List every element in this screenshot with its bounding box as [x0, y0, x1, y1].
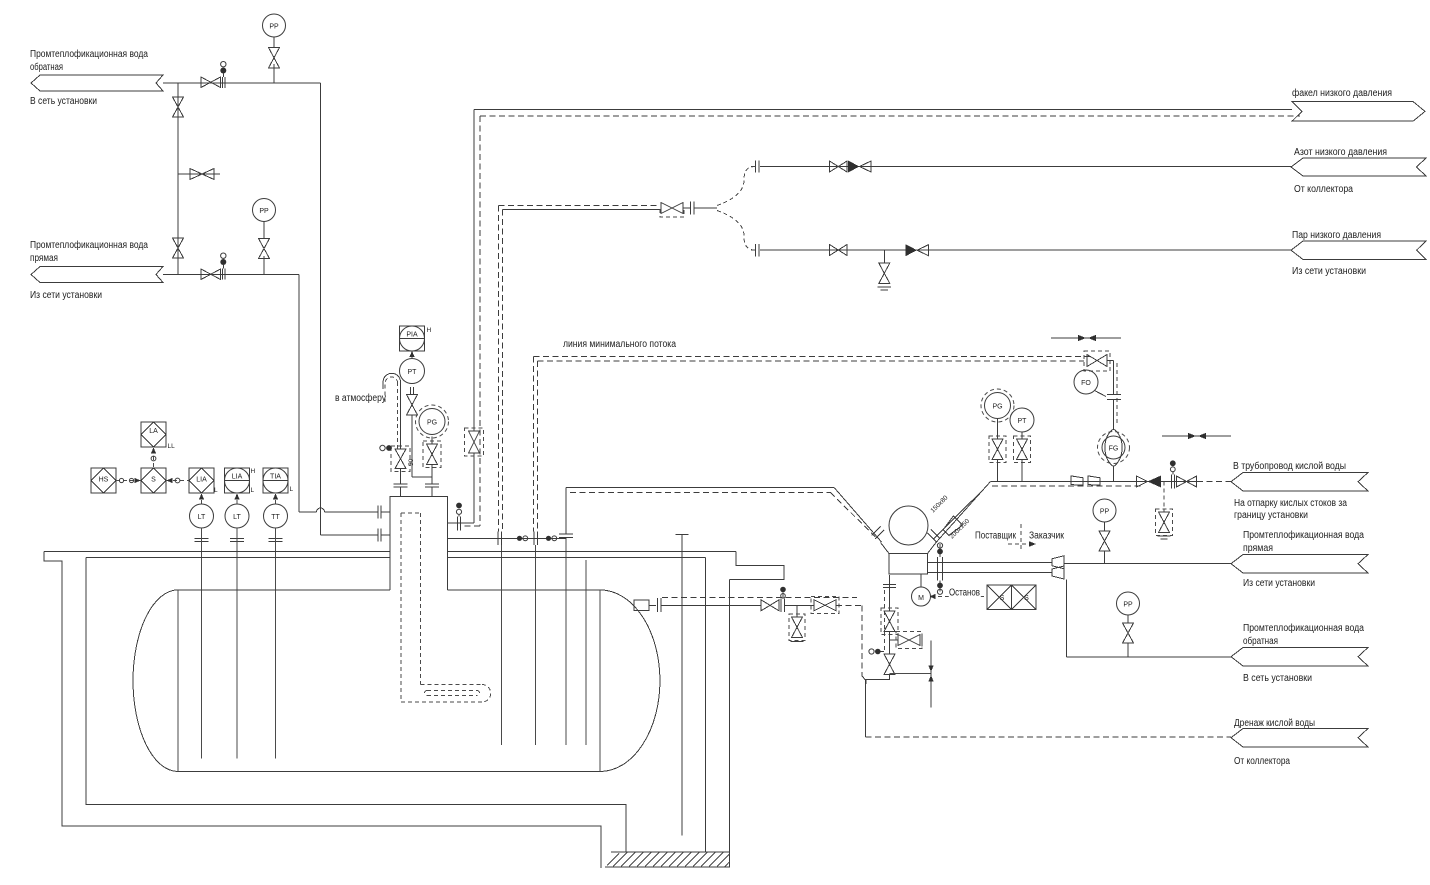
valve vent isolation DN50 — [391, 446, 415, 472]
svg-text:LL: LL — [168, 443, 176, 450]
wire: acid water drain header to flag — [866, 736, 1232, 738]
instrument TT temperature transmitter — [264, 504, 288, 528]
valve below PP (return) — [269, 48, 280, 69]
valve check on nitrogen header — [848, 161, 871, 173]
svg-text:Промтеплофикационная вода: Промтеплофикационная вода — [30, 48, 148, 60]
wire: pump suction dip tube in vessel — [565, 538, 567, 746]
node: standpipe body — [390, 497, 448, 590]
flange on suction riser — [559, 534, 573, 538]
node: reducer 150x80 / 200x150 — [929, 494, 971, 540]
valve check on steam header — [906, 244, 929, 256]
node: orifice plate bars — [1107, 395, 1121, 400]
wire: drain branch on discharge — [1163, 482, 1165, 513]
wire: steam header y=250 — [760, 249, 1291, 251]
wire: nitrogen header y=166.5 — [760, 166, 1291, 168]
wire: signal LT2 to LIA — [234, 494, 239, 505]
wire: LT2 dip tube into vessel — [236, 528, 238, 759]
node: hand lever dots (drain) — [869, 649, 884, 655]
instrument PG pressure gauge (pump discharge) — [981, 389, 1014, 422]
svg-text:PP: PP — [259, 208, 269, 215]
svg-text:Из сети установки: Из сети установки — [1292, 266, 1366, 277]
instrument LIA level switch (logic square) — [189, 468, 218, 494]
svg-text:S: S — [1024, 595, 1029, 602]
svg-text:Промтеплофикационная вода: Промтеплофикационная вода — [1243, 529, 1364, 541]
svg-text:Азот низкого давления: Азот низкого давления — [1294, 147, 1387, 158]
node: flag В трубопровод кислой воды — [1231, 460, 1368, 521]
node: flag Промтеплофикационная вода обратная (right) — [1231, 622, 1368, 684]
svg-text:Промтеплофикационная вода: Промтеплофикационная вода — [30, 239, 148, 251]
flange on steam supply — [683, 202, 694, 215]
svg-text:Дренаж кислой воды: Дренаж кислой воды — [1234, 718, 1315, 729]
flange pump casing drain — [883, 585, 896, 588]
svg-text:Останов: Останов — [949, 588, 980, 599]
instrument PP (return from jacket) — [1117, 592, 1140, 615]
node: boundary marker with arrows — [890, 641, 934, 708]
node: spec break dots 2 — [546, 536, 557, 541]
node: flag Дренаж кислой воды — [1231, 718, 1368, 767]
valve gate on drain — [761, 587, 786, 612]
svg-text:факел низкого давления: факел низкого давления — [1292, 87, 1392, 99]
node: flag Пар низкого давления (from unit network) — [1291, 230, 1426, 277]
wire: drain between valves — [889, 632, 891, 655]
node: dike inner outline — [86, 558, 706, 853]
svg-text:LIA: LIA — [232, 474, 243, 481]
instrument LA level alarm (shared logic square) — [141, 422, 175, 450]
svg-text:L: L — [290, 486, 294, 493]
node: stop pushbutton dots — [937, 583, 943, 595]
valve hand gate on return header — [201, 61, 226, 88]
flange pump suction (diagonal bars) — [872, 527, 885, 540]
wire: TT dip tube into vessel — [275, 528, 277, 759]
valve below PT (discharge) — [1014, 432, 1031, 482]
svg-text:L: L — [251, 487, 255, 494]
wire: return riser down to standpipe lower nozzle — [321, 83, 378, 535]
node: hand lever of vent valve — [380, 445, 392, 451]
svg-text:FG: FG — [1109, 446, 1119, 453]
wire: suction header from standpipe — [448, 537, 567, 539]
wire: LT1 dip tube into vessel — [201, 528, 203, 759]
wire: flare header solid — [474, 109, 1292, 111]
valve gate on steam header — [830, 245, 848, 256]
instrument S interlock box 2 — [1012, 585, 1037, 610]
node: flag Азот низкого давления (from collector) — [1291, 147, 1426, 195]
wire: FG to acid water line — [1113, 467, 1115, 482]
svg-text:LA: LA — [149, 428, 158, 435]
svg-text:PP: PP — [269, 24, 279, 31]
pump P1 casing — [881, 506, 937, 574]
svg-text:LT: LT — [198, 514, 206, 521]
valve sample on drain — [789, 614, 805, 642]
svg-text:PIA: PIA — [406, 332, 418, 339]
wire: signal TT to TIA — [273, 494, 278, 505]
wire: bypass drop x=178 — [177, 83, 179, 275]
svg-text:PP: PP — [1123, 602, 1133, 609]
svg-text:TIA: TIA — [270, 474, 281, 481]
svg-text:L: L — [214, 487, 218, 494]
valve check on discharge — [1137, 476, 1162, 488]
node: vent stem on spool — [937, 543, 943, 592]
svg-text:M: M — [918, 595, 924, 602]
instrument PP (supply to jacket) — [1093, 499, 1116, 522]
instrument S solenoid/logic — [141, 468, 166, 493]
svg-text:линия минимального потока: линия минимального потока — [563, 339, 676, 350]
wire: Y-split to nitrogen header (dashed arc) — [717, 167, 756, 206]
node: spec break dots 1 — [517, 536, 528, 541]
wire: branch to PP gauge — [273, 64, 275, 83]
svg-text:обратная: обратная — [1243, 635, 1278, 647]
wire: return water header y=83 — [163, 82, 321, 84]
wire: flare riser from standpipe — [473, 110, 475, 432]
flange pair on jacket spool — [938, 557, 943, 581]
instrument TIA temperature indicator alarm (panel) — [263, 468, 294, 493]
valve drain (discharge line) — [1156, 509, 1173, 539]
svg-text:PP: PP — [1100, 509, 1110, 516]
wire: jacket water supply line — [1064, 563, 1231, 565]
flange standpipe upper nozzle — [378, 506, 390, 519]
svg-text:Из сети установки: Из сети установки — [30, 290, 102, 301]
svg-text:обратная: обратная — [30, 61, 63, 73]
wire: steam drain branch — [883, 250, 885, 263]
svg-text:От коллектора: От коллектора — [1294, 184, 1353, 195]
valve below PP supply — [1099, 522, 1110, 564]
valve hand gate on supply header — [201, 253, 226, 280]
flange LT1 nozzle — [195, 539, 209, 542]
flange pump discharge (diagonal bars) — [928, 530, 941, 543]
wire: Y-split to steam header (dashed arc) — [717, 211, 756, 251]
svg-text:В сеть установки: В сеть установки — [1243, 673, 1312, 684]
instrument S interlock box 1 — [987, 585, 1012, 610]
instrument PP pressure point (supply header) — [253, 199, 276, 222]
wire: jacket water return line — [1067, 656, 1232, 658]
instrument PIA pressure indicator alarm — [400, 326, 432, 351]
wire: vent pipe to atmosphere with gooseneck — [383, 373, 400, 449]
wire: drain dashed run to header — [836, 605, 866, 737]
instrument LT level transmitter 1 — [190, 504, 214, 528]
flange standpipe lower nozzle — [378, 528, 390, 541]
instrument LT level transmitter 2 — [225, 504, 249, 528]
flange at steam tie-in — [498, 532, 502, 546]
wire: heating jacket spool lines — [928, 562, 1053, 572]
wire: signal LT1 to LIA — [199, 494, 204, 505]
svg-text:PG: PG — [992, 404, 1002, 411]
svg-text:в атмосферу: в атмосферу — [335, 392, 386, 404]
node: drain nozzle on head — [634, 600, 649, 611]
instrument PG pressure gauge (standpipe) — [416, 405, 449, 438]
wire: overflow pipe into pit — [681, 535, 683, 836]
instrument FO restriction orifice — [1074, 370, 1106, 397]
svg-text:TT: TT — [271, 514, 280, 521]
wire: suction riser and run to pump — [566, 488, 882, 542]
svg-text:H: H — [251, 468, 256, 475]
valve flush horizontal — [896, 632, 922, 649]
svg-text:S: S — [151, 477, 156, 484]
svg-text:FO: FO — [1081, 380, 1091, 387]
svg-text:PG: PG — [427, 420, 437, 427]
instrument LIA level indicator alarm (panel) — [225, 468, 256, 494]
valve union with stem on flare connection — [456, 503, 462, 531]
valve second on drain (future) — [811, 597, 839, 614]
node: dike outer outline — [44, 552, 784, 868]
valve on steam supply — [660, 203, 684, 218]
node: Поставщик/Заказчик boundary — [975, 524, 1065, 549]
svg-text:прямая: прямая — [1243, 543, 1273, 554]
valve steam drain — [878, 263, 892, 290]
svg-text:Заказчик: Заказчик — [1029, 531, 1065, 542]
wire: standpipe right side nozzle to flare riser — [448, 522, 475, 524]
svg-text:прямая: прямая — [30, 253, 58, 264]
svg-text:На отпарку кислых стоков за: На отпарку кислых стоков за — [1234, 498, 1347, 509]
instrument PT pressure transmitter — [400, 359, 425, 384]
valve on bypass bottom — [173, 238, 184, 258]
wire: min flow line (double dashed) — [533, 357, 1090, 532]
flange drain nozzle — [649, 598, 661, 612]
wire: steam sparger tube in vessel — [500, 545, 502, 745]
wire: drain trace dashed — [662, 597, 857, 599]
svg-text:HS: HS — [99, 477, 109, 484]
flange standpipe left top nozzle — [394, 469, 408, 497]
wire: drain line solid — [661, 604, 814, 606]
wire: flare riser trace dashed — [463, 116, 480, 526]
wire: Останов signal to motor — [930, 588, 988, 600]
valve below PP return — [1123, 615, 1134, 657]
valve control on min flow — [1084, 351, 1117, 425]
wire: flare header trace dashed — [480, 115, 1300, 117]
node: flag Промтеплофикационная вода прямая (right) — [1231, 529, 1368, 589]
wire: signal PT to PIA — [409, 351, 414, 359]
motor M — [912, 574, 931, 606]
valve below PP (supply) — [259, 239, 270, 259]
valve on bypass top — [173, 97, 184, 117]
wire: signal S to LA — [151, 448, 156, 469]
node: marker arrow above discharge valve — [1162, 433, 1231, 439]
svg-text:LIA: LIA — [196, 477, 207, 484]
instrument PP pressure point (return header) — [263, 14, 286, 37]
svg-text:LT: LT — [233, 514, 241, 521]
flange standpipe right top nozzle — [425, 477, 439, 497]
node: marker arrow above min flow valve — [1051, 335, 1121, 341]
valve gate with position stem (discharge) — [1170, 460, 1197, 488]
svg-text:границу установки: границу установки — [1234, 510, 1308, 521]
node: standpipe internal dip tube (dashed) — [401, 513, 491, 702]
wire: min flow down to FG — [1113, 400, 1115, 430]
valve gate on nitrogen header — [830, 161, 848, 172]
flange on nitrogen header — [751, 161, 759, 173]
valve pump drain upper — [881, 608, 898, 635]
wire: signal HS to S — [116, 478, 141, 483]
wire: supply riser down to standpipe upper nozzle — [299, 275, 317, 513]
flange LT2 nozzle — [230, 539, 244, 542]
wire: discharge header y=481.5 — [991, 481, 1198, 483]
node: flag факел низкого давления — [1292, 87, 1425, 121]
node: jacket nozzle trapezoid top — [1052, 556, 1064, 569]
wire: steam supply line to vessel (traced) — [499, 206, 718, 210]
wire: pump discharge diagonal — [936, 482, 991, 543]
vessel shell — [133, 590, 660, 772]
svg-text:Из сети установки: Из сети установки — [1243, 578, 1315, 589]
node: flag Промтеплофикационная вода прямая (from unit network) — [30, 239, 163, 301]
valve on flare riser — [465, 428, 484, 456]
svg-text:S: S — [1000, 595, 1005, 602]
wire: spare dip tube in vessel — [585, 560, 587, 745]
svg-text:От коллектора: От коллектора — [1234, 756, 1290, 767]
svg-text:Поставщик: Поставщик — [975, 531, 1016, 542]
svg-text:Промтеплофикационная вода: Промтеплофикационная вода — [1243, 622, 1364, 634]
node: overflow funnel bar — [676, 534, 689, 536]
node: sparger (dashed) — [425, 691, 480, 696]
wire: steam drop to vessel sparger — [498, 206, 500, 532]
svg-text:Пар низкого давления: Пар низкого давления — [1292, 230, 1381, 241]
svg-text:PT: PT — [1018, 418, 1028, 425]
valve below PT — [407, 395, 418, 416]
wire: pump drain vertical — [889, 575, 891, 611]
instrument FG sight flow glass — [1098, 429, 1130, 467]
svg-text:В сеть установки: В сеть установки — [30, 96, 97, 107]
wire: min flow return tube in vessel — [535, 545, 537, 745]
wire: drain to header — [866, 675, 890, 685]
node: reducer pair on discharge — [1071, 476, 1100, 485]
wire: PT/PG manifold — [412, 415, 432, 477]
instrument PT pressure transmitter (discharge) — [1010, 408, 1034, 432]
svg-text:PT: PT — [408, 369, 418, 376]
flange at min flow tie-in — [534, 532, 538, 546]
wire: branch to PP gauge (supply) — [263, 256, 265, 275]
wire: signal LIA to S — [166, 478, 189, 483]
wire: drain sample branch — [796, 605, 798, 617]
node: jacket nozzle trapezoid bottom — [1052, 566, 1064, 579]
valve below PG (discharge) — [989, 419, 1006, 482]
wire: supply water header y=274.5 — [163, 274, 299, 276]
instrument HS hand switch — [91, 468, 116, 493]
node: pit floor hatching — [605, 852, 730, 867]
valve below PG — [423, 437, 441, 468]
svg-text:В трубопровод кислой воды: В трубопровод кислой воды — [1233, 460, 1346, 472]
valve pump drain lower — [884, 654, 895, 675]
node: line jump over return riser — [317, 508, 325, 512]
valve vent stub mid bypass — [178, 169, 220, 180]
svg-text:H: H — [427, 327, 432, 334]
wire: stub to flush valve — [890, 639, 899, 641]
node: flag Промтеплофикационная вода обратная (to unit network) — [30, 48, 163, 107]
flange TT nozzle — [269, 539, 283, 542]
flange on steam header — [751, 244, 759, 257]
wire: jacket water return drop — [1066, 580, 1068, 658]
